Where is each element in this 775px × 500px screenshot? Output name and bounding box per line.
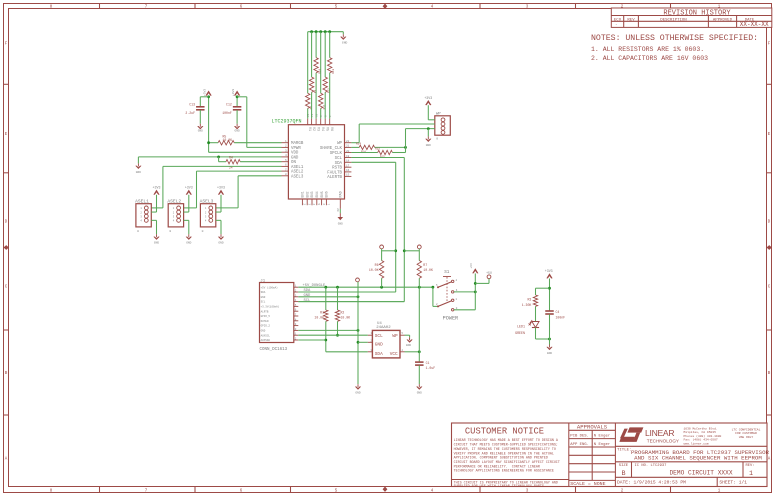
svg-text:EN6: EN6	[326, 191, 330, 197]
svg-text:VPWR: VPWR	[291, 147, 301, 151]
svg-text:SCL: SCL	[375, 334, 383, 339]
svg-text:+3V3: +3V3	[203, 89, 206, 96]
svg-text:R4: R4	[229, 156, 233, 160]
svg-text:+3V3: +3V3	[185, 186, 193, 190]
svg-text:R3: R3	[527, 298, 531, 302]
svg-text:TITLE:: TITLE:	[617, 448, 631, 452]
svg-text:+3V3: +3V3	[424, 96, 432, 100]
svg-text:Phones (408) 432-1900: Phones (408) 432-1900	[684, 434, 722, 438]
svg-text:C13: C13	[189, 102, 195, 106]
svg-text:+5V (100mA): +5V (100mA)	[261, 285, 279, 289]
svg-text:APPROVED: APPROVED	[713, 18, 733, 22]
svg-text:GND: GND	[342, 42, 348, 45]
svg-text:11: 11	[293, 333, 297, 336]
svg-text:PAD: PAD	[340, 191, 344, 197]
svg-text:V6: V6	[329, 127, 333, 131]
svg-text:+3V3: +3V3	[153, 186, 161, 190]
svg-text:1. ALL RESISTORS ARE 1% 0603.: 1. ALL RESISTORS ARE 1% 0603.	[591, 46, 704, 53]
svg-text:APPROVALS: APPROVALS	[577, 424, 608, 431]
svg-text:www.linear.com: www.linear.com	[684, 441, 709, 445]
svg-text:C1: C1	[426, 361, 430, 365]
svg-text:GPIO_2: GPIO_2	[261, 325, 271, 328]
svg-text:GND: GND	[218, 241, 223, 244]
svg-text:10.0K: 10.0K	[314, 316, 324, 320]
svg-text:EN4: EN4	[316, 191, 320, 197]
svg-text:+3V3: +3V3	[545, 269, 553, 273]
svg-text:GND: GND	[338, 223, 343, 226]
svg-text:GND: GND	[186, 241, 191, 244]
svg-text:GND: GND	[355, 392, 360, 395]
svg-text:Fax: (408) 434-0507: Fax: (408) 434-0507	[684, 438, 718, 442]
svg-text:100nF: 100nF	[556, 315, 566, 319]
svg-text:+3.3V(100mA): +3.3V(100mA)	[261, 305, 280, 309]
svg-text:SCL: SCL	[335, 157, 343, 161]
svg-text:-: -	[615, 24, 617, 28]
svg-text:REV: REV	[627, 18, 635, 22]
svg-text:ASEL3: ASEL3	[291, 175, 304, 179]
svg-text:VDD: VDD	[291, 152, 299, 156]
svg-text:2. ALL CAPACITORS ARE 16V 0603: 2. ALL CAPACITORS ARE 16V 0603	[591, 55, 708, 62]
svg-text:ASEL3: ASEL3	[200, 198, 214, 204]
svg-text:USE ONLY: USE ONLY	[739, 436, 754, 439]
svg-text:ALERTB: ALERTB	[327, 176, 342, 180]
svg-text:AUXSDA: AUXSDA	[261, 339, 271, 342]
svg-text:WP: WP	[337, 142, 342, 146]
svg-text:12: 12	[293, 338, 297, 341]
svg-text:REV:: REV:	[746, 464, 755, 468]
svg-text:GND: GND	[261, 330, 266, 333]
svg-text:WP: WP	[436, 113, 441, 117]
svg-text:1.0uF: 1.0uF	[426, 366, 436, 370]
svg-text:ASEL2: ASEL2	[291, 171, 304, 175]
svg-text:1.30K: 1.30K	[522, 303, 532, 307]
svg-text:R6: R6	[375, 263, 379, 267]
svg-text:OUTEN: OUTEN	[261, 320, 269, 323]
svg-text:1630 McCarthy Blvd.: 1630 McCarthy Blvd.	[684, 427, 718, 431]
svg-text:EN2: EN2	[306, 191, 310, 197]
svg-text:CONN_DC1613: CONN_DC1613	[260, 348, 288, 352]
svg-text:SIZE: SIZE	[619, 464, 629, 468]
svg-text:2.2uF: 2.2uF	[185, 111, 195, 115]
svg-text:21: 21	[346, 145, 350, 148]
svg-text:+5V: +5V	[470, 263, 473, 269]
svg-text:DEMO CIRCUIT XXXX: DEMO CIRCUIT XXXX	[669, 470, 732, 477]
svg-text:EN1: EN1	[302, 191, 306, 197]
svg-text:J1: J1	[260, 279, 265, 283]
svg-text:GND: GND	[375, 342, 383, 347]
svg-text:SDA: SDA	[375, 352, 383, 357]
svg-text:GND: GND	[304, 294, 312, 298]
svg-text:IC NO. LTC2937: IC NO. LTC2937	[635, 464, 667, 468]
svg-text:GND: GND	[136, 171, 141, 174]
svg-text:SHEET: 1/1: SHEET: 1/1	[719, 480, 747, 486]
svg-text:MARGB: MARGB	[291, 142, 304, 146]
svg-text:ECO: ECO	[614, 18, 622, 22]
svg-text:V2: V2	[311, 127, 315, 131]
svg-text:C4: C4	[556, 310, 560, 314]
svg-text:GND: GND	[417, 392, 422, 395]
svg-text:17: 17	[346, 165, 350, 168]
svg-text:ASEL1: ASEL1	[291, 166, 304, 170]
svg-text:GND: GND	[198, 130, 203, 133]
svg-text:R13: R13	[332, 68, 335, 73]
svg-text:TECHNOLOGY APPLICATIONS ENGINE: TECHNOLOGY APPLICATIONS ENGINEERING FOR …	[454, 470, 554, 474]
svg-text:AUXSCL: AUXSCL	[261, 334, 271, 337]
svg-text:V4: V4	[320, 127, 324, 131]
svg-text:0: 0	[202, 230, 204, 233]
svg-text:WP: WP	[392, 334, 398, 339]
svg-text:N Enger: N Enger	[594, 435, 610, 439]
svg-text:+3V3: +3V3	[232, 89, 235, 96]
svg-text:19: 19	[346, 155, 350, 158]
svg-text:0: 0	[436, 138, 438, 141]
svg-text:S1: S1	[444, 270, 450, 275]
svg-text:XX-XX-XX: XX-XX-XX	[740, 21, 769, 28]
svg-text:EN3: EN3	[311, 191, 315, 197]
svg-text:24: 24	[229, 167, 233, 170]
svg-text:V3: V3	[315, 127, 319, 131]
svg-text:POWER: POWER	[443, 316, 459, 322]
svg-text:FOR CUSTOMER: FOR CUSTOMER	[735, 432, 757, 435]
svg-text:20: 20	[346, 150, 350, 153]
svg-text:10.0K: 10.0K	[223, 138, 233, 142]
svg-text:R2: R2	[341, 310, 345, 314]
svg-text:29: 29	[336, 208, 339, 212]
svg-text:R7: R7	[423, 263, 427, 267]
svg-text:NOTES: UNLESS OTHERWISE SPECIF: NOTES: UNLESS OTHERWISE SPECIFIED:	[591, 34, 758, 43]
svg-text:LTC2937QFN: LTC2937QFN	[272, 118, 302, 124]
svg-text:APP ENG.: APP ENG.	[570, 443, 589, 447]
svg-text:100nF: 100nF	[222, 111, 232, 115]
svg-text:GND: GND	[261, 296, 266, 299]
svg-text:GND: GND	[291, 156, 299, 160]
svg-text:N Enger: N Enger	[594, 443, 610, 447]
svg-text:R14: R14	[356, 142, 361, 145]
svg-text:GND: GND	[234, 130, 239, 133]
svg-text:U4: U4	[377, 322, 382, 326]
svg-text:VCC: VCC	[390, 352, 398, 357]
svg-text:SCL: SCL	[304, 299, 312, 303]
svg-text:+3V3: +3V3	[217, 186, 225, 190]
svg-text:C12: C12	[226, 102, 232, 106]
svg-text:22: 22	[346, 140, 350, 143]
svg-text:GPIO_5: GPIO_5	[261, 315, 271, 318]
svg-text:SUPPLIED FOR USE WITH LINEAR T: SUPPLIED FOR USE WITH LINEAR TECHNOLOGY …	[454, 485, 544, 489]
svg-text:SCALE = NONE: SCALE = NONE	[570, 481, 605, 487]
svg-text:GND: GND	[426, 144, 431, 147]
svg-text:SPCLK: SPCLK	[330, 152, 343, 156]
svg-text:10.0K: 10.0K	[423, 268, 433, 272]
svg-text:DATE: 1/9/2015 4:20:53 PM: DATE: 1/9/2015 4:20:53 PM	[617, 480, 686, 486]
svg-text:10: 10	[293, 328, 297, 331]
svg-text:LTC CONFIDENTIAL: LTC CONFIDENTIAL	[732, 429, 761, 432]
svg-text:SDA: SDA	[261, 291, 266, 294]
svg-text:V5: V5	[324, 127, 328, 131]
svg-text:EN5: EN5	[321, 191, 325, 197]
svg-text:LED1: LED1	[517, 324, 525, 328]
svg-text:GND: GND	[547, 352, 552, 355]
svg-text:SDA: SDA	[335, 162, 343, 166]
svg-text:GND: GND	[406, 344, 411, 347]
svg-text:GND: GND	[154, 241, 159, 244]
svg-text:SDA: SDA	[304, 289, 312, 293]
svg-text:SHARE_CLK: SHARE_CLK	[320, 147, 343, 151]
svg-text:DESCRIPTION: DESCRIPTION	[660, 18, 687, 22]
svg-text:24AA02: 24AA02	[376, 326, 391, 330]
svg-text:16: 16	[346, 169, 350, 172]
svg-text:10.0K: 10.0K	[341, 316, 351, 320]
svg-text:PCB DES.: PCB DES.	[570, 435, 589, 439]
svg-text:+5V: +5V	[486, 271, 492, 275]
svg-text:R15: R15	[375, 148, 380, 151]
svg-text:V1: V1	[307, 127, 311, 131]
svg-text:RSTB: RSTB	[332, 167, 342, 171]
svg-text:ALRTB: ALRTB	[261, 310, 269, 313]
svg-text:CUSTOMER NOTICE: CUSTOMER NOTICE	[465, 427, 544, 437]
svg-text:GREEN: GREEN	[515, 331, 525, 335]
svg-text:SCL: SCL	[261, 301, 266, 304]
svg-text:ON: ON	[291, 161, 296, 165]
svg-text:TECHNOLOGY: TECHNOLOGY	[647, 438, 679, 443]
svg-text:R1: R1	[320, 310, 324, 314]
svg-text:Milpitas, CA 95035: Milpitas, CA 95035	[684, 430, 717, 434]
svg-text:ASEL2: ASEL2	[167, 198, 181, 204]
svg-text:10.0K: 10.0K	[369, 268, 379, 272]
svg-text:18: 18	[346, 160, 350, 163]
svg-text:LINEAR: LINEAR	[645, 428, 674, 438]
svg-text:0: 0	[137, 230, 139, 233]
svg-text:REVISION HISTORY: REVISION HISTORY	[663, 9, 731, 17]
svg-text:AND SIX CHANNEL SEQUENCER WITH: AND SIX CHANNEL SEQUENCER WITH EEPROM	[634, 455, 762, 462]
svg-text:0: 0	[169, 230, 171, 233]
svg-text:15: 15	[346, 174, 350, 177]
svg-text:FAULTB: FAULTB	[327, 171, 342, 175]
svg-text:ASEL1: ASEL1	[135, 198, 149, 204]
